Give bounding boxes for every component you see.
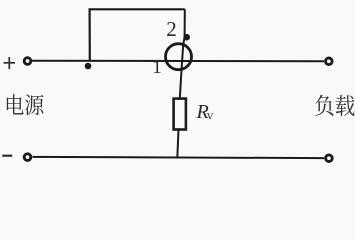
junction dot A	[85, 63, 92, 70]
wire resistor to bottom rail	[177, 130, 178, 159]
meter circle U1	[166, 44, 192, 70]
wire top rail	[32, 60, 324, 63]
label dianyuan (power source)	[7, 94, 24, 114]
terminal bottom right	[326, 155, 333, 162]
svg-text:2: 2	[166, 17, 177, 41]
svg-text:1: 1	[152, 57, 162, 78]
terminal - (bottom left)	[24, 154, 31, 161]
label +	[4, 57, 16, 69]
wire sampling loop	[90, 9, 185, 61]
terminal + (top left)	[24, 58, 31, 65]
svg-text:V: V	[207, 113, 214, 123]
junction dot node 2	[183, 34, 190, 41]
wire bottom rail	[33, 157, 325, 158]
resistor RV	[174, 99, 186, 130]
label fuzai (load)	[315, 95, 333, 116]
label -	[2, 155, 12, 157]
wire vertical branch	[180, 9, 185, 98]
terminal top right	[326, 58, 333, 65]
